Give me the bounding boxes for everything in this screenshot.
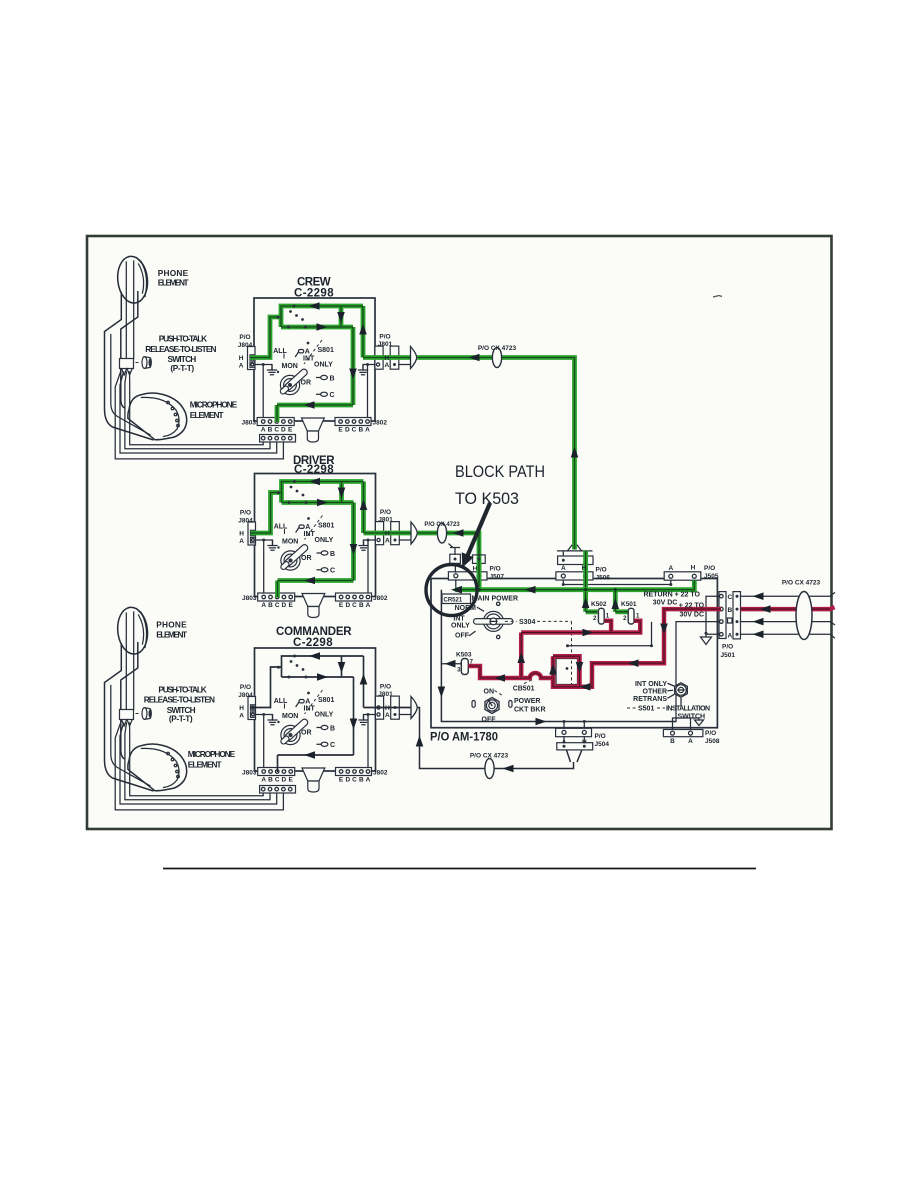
svg-text:S501: S501: [638, 706, 654, 713]
svg-text:ON: ON: [484, 689, 495, 696]
svg-text:P/O: P/O: [705, 730, 716, 737]
red riser to relay bus: [521, 621, 640, 678]
wire: inner return bus (left + bottom): [441, 590, 676, 722]
cable marker P/O CX 4723 on crew wire: [492, 348, 501, 368]
svg-text:K503: K503: [456, 652, 472, 659]
connector P/O J505: [664, 572, 701, 580]
connector P/O J507: [448, 572, 487, 580]
green drop to K501: [615, 590, 627, 612]
svg-text:P/O: P/O: [704, 565, 715, 572]
green from driver through J507 pin: [477, 556, 482, 590]
handset (commander): [105, 606, 284, 810]
flow arrows on red path: [660, 624, 668, 635]
svg-text:ELEMENT: ELEMENT: [158, 278, 189, 288]
shorted pin symbol above J507-A: [449, 544, 460, 554]
svg-text:H: H: [691, 565, 696, 572]
stray scan mark top right: [713, 296, 722, 298]
svg-text:INSTALLATION: INSTALLATION: [666, 706, 710, 713]
svg-text:C-2298: C-2298: [294, 288, 334, 300]
svg-text:30V DC: 30V DC: [653, 600, 678, 607]
wire: J501-D branch: [676, 622, 719, 722]
svg-text:NORM: NORM: [455, 605, 477, 612]
svg-text:C: C: [728, 594, 733, 601]
svg-text:OFF: OFF: [482, 717, 497, 724]
svg-text:RETURN + 22 TO: RETURN + 22 TO: [644, 592, 701, 599]
cable wires to vehicle harness: [741, 593, 835, 638]
wire: crew output to J506 (green): [417, 358, 574, 550]
svg-text:J505: J505: [704, 573, 719, 580]
svg-text:MICROPHONE: MICROPHONE: [188, 749, 236, 759]
svg-text:RETRANS: RETRANS: [633, 696, 667, 703]
control box DRIVER C-2298: [238, 474, 417, 618]
svg-text:ELEMENT: ELEMENT: [190, 410, 224, 420]
rotary switch S501 INT ONLY/OTHER/RETRANS: [675, 683, 688, 697]
svg-text:+ 22 TO: + 22 TO: [679, 603, 705, 610]
svg-text:S304: S304: [519, 619, 535, 626]
cable marker P/O CX 4723 on commander wire: [485, 759, 494, 779]
frame border of figure: [87, 236, 832, 829]
wire: parallel bus under top edge (J506-A to J505-A): [563, 580, 671, 585]
svg-text:P/O CX 4723: P/O CX 4723: [782, 580, 821, 587]
svg-text:MAIN POWER: MAIN POWER: [472, 596, 519, 603]
red branch to K503 with CB501 hump: [468, 666, 553, 678]
diode CR521: [442, 594, 471, 604]
svg-text:C-2298: C-2298: [293, 637, 333, 649]
annotation arrow to CR521: [468, 503, 490, 555]
control box CREW C-2298: [238, 298, 417, 442]
svg-text:K501: K501: [621, 601, 637, 608]
svg-text:P/O: P/O: [490, 566, 501, 573]
svg-text:P/O CX 4723: P/O CX 4723: [478, 345, 517, 352]
svg-text:(P-T-T): (P-T-T): [170, 363, 194, 373]
wire: K503 pin 3 to return bus: [441, 663, 461, 665]
circuit breaker CB501: [485, 698, 499, 714]
ground at installation switch: [695, 720, 704, 726]
svg-text:INT: INT: [453, 616, 465, 623]
handset wires strip (commander): [260, 786, 296, 794]
svg-text:A: A: [688, 738, 693, 745]
svg-text:B: B: [670, 738, 675, 745]
power path +22-30V (red) from J501-B: [553, 609, 721, 687]
J506 outer strip + funnel: [558, 551, 592, 556]
svg-text:30V DC: 30V DC: [680, 612, 705, 619]
S501 dashed label row: [627, 707, 665, 709]
svg-text:H: H: [582, 565, 587, 572]
svg-text:C-2298: C-2298: [294, 464, 334, 476]
connector P/O J508: [663, 730, 703, 737]
svg-text:PUSH-TO-TALK: PUSH-TO-TALK: [158, 684, 207, 694]
bottom rule line: [163, 868, 756, 870]
cable bundle ellipse P/O CX 4723: [796, 592, 812, 640]
connector P/O J501 (right edge): [717, 596, 719, 634]
wire: driver output to J507 (green): [418, 533, 479, 590]
AM-1780 amplifier outer box: [431, 579, 717, 728]
connector P/O J506: [556, 572, 593, 580]
svg-text:K502: K502: [591, 601, 607, 608]
svg-text:P/O AM-1780: P/O AM-1780: [430, 730, 498, 744]
svg-text:CKT BKR: CKT BKR: [514, 707, 546, 714]
J507 outer pin boxes: [454, 563, 456, 589]
power wire +22V in cable: [741, 607, 835, 609]
relay K501: [628, 608, 634, 624]
relay K503: [461, 659, 468, 675]
svg-text:J507: J507: [490, 574, 505, 581]
cable marker P/O CX 4723 on driver wire: [437, 523, 446, 543]
green through J506 H pin down to K502: [586, 551, 598, 612]
red loop around contact box: [553, 656, 580, 687]
svg-text:A: A: [668, 565, 673, 572]
junction dots on green bus: [477, 588, 480, 591]
control box COMMANDER C-2298: [238, 648, 417, 792]
svg-text:J504: J504: [595, 741, 610, 748]
svg-text:ONLY: ONLY: [451, 623, 470, 630]
svg-text:J501: J501: [721, 652, 736, 659]
svg-text:BLOCK PATH: BLOCK PATH: [455, 462, 545, 481]
wire: S501 row: [568, 623, 652, 646]
J501 mating strip: [733, 592, 741, 639]
svg-text:POWER: POWER: [514, 698, 540, 705]
handset (crew): [105, 255, 284, 459]
svg-text:PHONE: PHONE: [158, 268, 189, 278]
svg-text:J506: J506: [596, 575, 611, 582]
svg-text:PUSH-TO-TALK: PUSH-TO-TALK: [159, 334, 208, 344]
contact box inside red loop: [556, 659, 578, 685]
svg-text:P/O CX 4723: P/O CX 4723: [470, 753, 509, 760]
green return bus inside AM-1780: [455, 580, 694, 590]
svg-text:A: A: [561, 565, 566, 572]
svg-text:P/O CX 4723: P/O CX 4723: [424, 522, 460, 528]
svg-text:PHONE: PHONE: [156, 619, 187, 629]
J504 mating strip + funnel: [557, 743, 593, 750]
svg-text:J508: J508: [705, 738, 720, 745]
svg-text:INT ONLY: INT ONLY: [635, 681, 667, 688]
ground at J501: [701, 634, 712, 644]
svg-text:P/O: P/O: [722, 644, 733, 651]
relay K502: [598, 608, 604, 624]
circled fault location: [426, 565, 477, 616]
rotary switch S304 MAIN POWER: [483, 611, 503, 631]
svg-text:P/O: P/O: [595, 733, 606, 740]
wire: commander output to J504 (black): [418, 708, 574, 769]
svg-text:B: B: [728, 607, 733, 614]
handset wires strip (crew): [260, 435, 296, 443]
connector P/O J504: [564, 722, 584, 732]
svg-text:ELEMENT: ELEMENT: [188, 760, 222, 770]
svg-text:CR521: CR521: [444, 598, 463, 604]
svg-text:(P-T-T): (P-T-T): [169, 713, 193, 723]
svg-text:MICROPHONE: MICROPHONE: [190, 399, 238, 409]
svg-text:CB501: CB501: [513, 686, 535, 693]
wire: S501 to J508: [673, 699, 700, 732]
svg-text:OTHER: OTHER: [643, 689, 668, 696]
svg-text:ELEMENT: ELEMENT: [156, 630, 187, 640]
svg-text:RELEASE-TO-LISTEN: RELEASE-TO-LISTEN: [144, 695, 216, 705]
svg-text:A: A: [728, 633, 733, 640]
svg-text:RELEASE-TO-LISTEN: RELEASE-TO-LISTEN: [145, 344, 217, 354]
svg-text:P/O: P/O: [596, 567, 607, 574]
svg-text:OFF: OFF: [455, 633, 470, 640]
wire: J501 C and A to ground: [706, 596, 719, 634]
